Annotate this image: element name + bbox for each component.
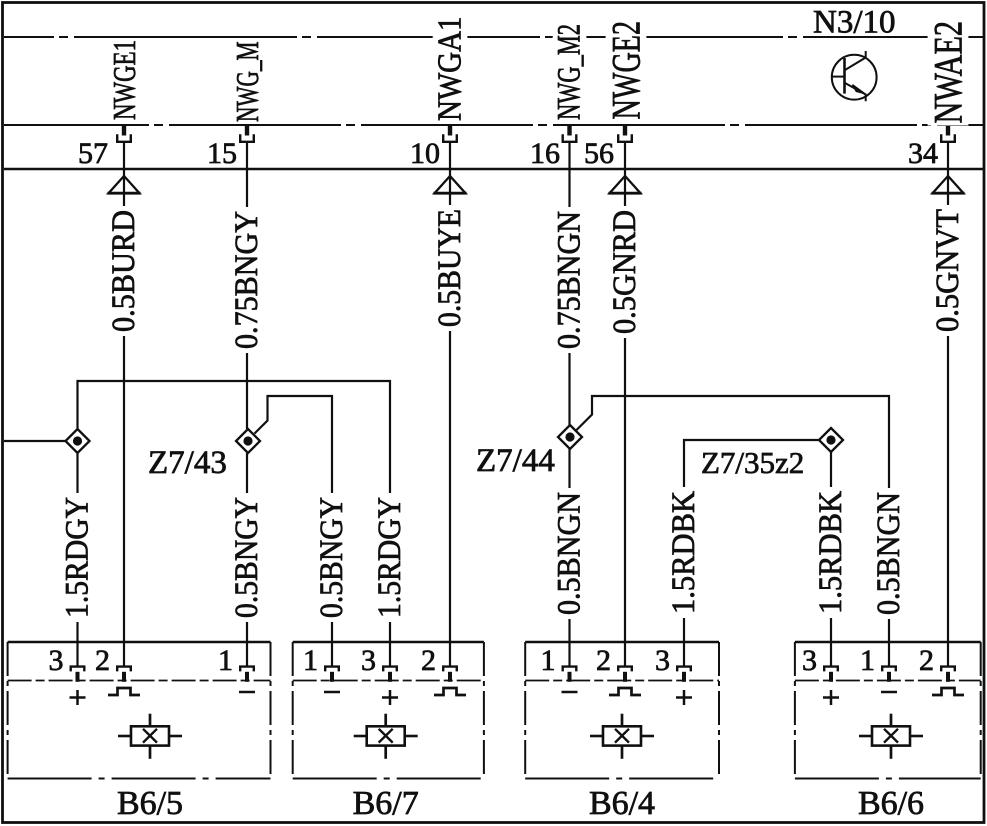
- B6/4 pin 2: [618, 667, 632, 682]
- svg-text:57: 57: [78, 137, 108, 170]
- svg-text:B6/6: B6/6: [858, 785, 924, 822]
- svg-text:15: 15: [207, 137, 237, 170]
- connector pin 56: [618, 125, 632, 142]
- svg-text:0.5BURD: 0.5BURD: [106, 210, 142, 332]
- svg-text:Z7/35z2: Z7/35z2: [701, 445, 804, 480]
- B6/7 pin 2: [443, 667, 457, 682]
- svg-text:0.75BNGY: 0.75BNGY: [229, 211, 265, 349]
- svg-text:NWG_M2: NWG_M2: [552, 24, 588, 120]
- connector pin 16: [563, 125, 577, 142]
- svg-text:2: 2: [596, 644, 611, 677]
- svg-text:16: 16: [530, 137, 560, 170]
- B6/6 sensor element symbol: [859, 714, 923, 759]
- B6/7 pin lead 2: [449, 642, 451, 667]
- B6/6 plus terminal mark: [823, 690, 839, 705]
- component box outline B6/4: [525, 642, 719, 779]
- connector pin 10: [443, 125, 457, 142]
- svg-text:B6/7: B6/7: [353, 785, 419, 822]
- B6/4 pin lead 2: [624, 642, 626, 667]
- svg-text:1: 1: [541, 644, 556, 677]
- wire from left sheet edge to splice node: [4, 440, 66, 442]
- B6/7 pin 1: [325, 667, 339, 682]
- wire label 0.75BNGY: [229, 207, 265, 353]
- B6/4 pin lead 3: [683, 642, 685, 667]
- wire label 0.5GNVT: [930, 205, 966, 336]
- svg-text:B6/4: B6/4: [589, 785, 655, 822]
- B6/6 signal/shield mark: [932, 688, 964, 695]
- svg-text:2: 2: [421, 644, 436, 677]
- direction arrow on 0.5GNRD: [609, 176, 642, 193]
- svg-text:3: 3: [655, 644, 670, 677]
- B6/5 pin lead 3: [77, 642, 79, 667]
- component box outline B6/6: [795, 642, 981, 779]
- wire 0.5BNGY splice Z7/43 to B6/5 pin1: [246, 453, 248, 666]
- B6/7 sensor element symbol: [354, 714, 418, 759]
- direction arrow on 0.5BUYE: [434, 176, 467, 193]
- B6/7 signal/shield mark: [434, 688, 466, 695]
- svg-text:Z7/43: Z7/43: [148, 445, 227, 481]
- component box outline B6/5: [8, 642, 271, 779]
- wire label 0.5BNGN (B6/4 pin1): [552, 488, 588, 619]
- svg-text:34: 34: [908, 137, 938, 170]
- svg-text:0.5BUYE: 0.5BUYE: [432, 209, 468, 327]
- svg-text:1.5RDBK: 1.5RDBK: [666, 491, 702, 614]
- B6/5 plus terminal mark: [70, 690, 86, 705]
- svg-text:0.75BNGN: 0.75BNGN: [552, 211, 588, 349]
- splice Z7/35z2: [819, 428, 843, 452]
- B6/6 pin 1: [882, 667, 896, 682]
- svg-text:0.5BNGN: 0.5BNGN: [871, 492, 907, 615]
- wire branch W1: node up and across to B6/7 pin3: [78, 381, 391, 666]
- wire 0.5BURD pin57 to B6/5 pin2: [123, 142, 125, 667]
- svg-text:NWAE2: NWAE2: [926, 21, 971, 124]
- svg-text:1: 1: [860, 644, 875, 677]
- svg-text:B6/5: B6/5: [117, 785, 183, 822]
- B6/7 minus terminal mark: [324, 691, 340, 694]
- B6/4 plus terminal mark: [676, 690, 692, 705]
- B6/7 pin lead 3: [389, 642, 391, 667]
- B6/5 pin 2: [117, 667, 131, 682]
- svg-text:NWGA1: NWGA1: [432, 17, 469, 122]
- B6/5 sensor element symbol: [118, 714, 182, 759]
- net label NWG_M2: [552, 22, 588, 122]
- svg-text:NWG_M: NWG_M: [229, 42, 265, 123]
- wire 0.5BUYE pin10 to B6/7 pin2: [449, 142, 451, 667]
- svg-text:3: 3: [361, 644, 376, 677]
- B6/4 pin 3: [677, 667, 691, 682]
- B6/6 pin lead 3: [830, 642, 832, 667]
- svg-text:2: 2: [95, 644, 110, 677]
- svg-text:3: 3: [49, 644, 64, 677]
- svg-text:1.5RDGY: 1.5RDGY: [60, 497, 96, 618]
- net label NWGA1: [432, 15, 469, 124]
- B6/4 signal/shield mark: [609, 688, 641, 695]
- svg-text:N3/10: N3/10: [813, 5, 896, 41]
- B6/7 pin 3: [383, 667, 397, 682]
- wire 0.5GNVT pin34 to B6/6 pin2: [947, 142, 949, 667]
- svg-text:1.5RDBK: 1.5RDBK: [813, 491, 849, 614]
- bus chain line upper: [4, 36, 983, 38]
- B6/7 pin lead 1: [331, 642, 333, 667]
- direction arrow on 0.5GNVT: [932, 176, 965, 193]
- B6/5 minus terminal mark: [239, 691, 255, 694]
- splice Z7/43: [236, 429, 260, 453]
- B6/4 pin lead 1: [569, 642, 571, 667]
- B6/5 pin lead 1: [246, 642, 248, 667]
- net label NWAE2: [926, 19, 971, 126]
- wire label 1.5RDBK (B6/6 pin3): [813, 487, 849, 618]
- svg-text:1: 1: [218, 644, 233, 677]
- component box outline B6/7: [293, 642, 484, 779]
- svg-text:56: 56: [584, 137, 614, 170]
- net label NWGE1: [106, 38, 142, 122]
- svg-text:1.5RDGY: 1.5RDGY: [372, 497, 408, 618]
- B6/7 plus terminal mark: [382, 690, 398, 705]
- wire branch W3: splice Z7/44 to B6/6 pin1: [577, 396, 890, 666]
- wire label 1.5RDGY (B6/7 pin3): [372, 493, 408, 622]
- wire label 0.5BUYE: [432, 205, 468, 331]
- B6/6 minus terminal mark: [881, 691, 897, 694]
- svg-text:3: 3: [802, 644, 817, 677]
- wire label 0.75BNGN: [552, 207, 588, 353]
- B6/5 pin 1: [240, 667, 254, 682]
- wire branch W4: B6/4 pin3 across to splice Z7/35z2: [684, 440, 819, 666]
- svg-text:NWGE1: NWGE1: [106, 40, 142, 120]
- direction arrow on 0.5BURD: [108, 176, 141, 193]
- wire 0.75BNGN pin16 to splice Z7/44: [568, 142, 570, 425]
- bus chain line lower (connector rail): [4, 124, 983, 126]
- wire label 0.5GNRD: [607, 206, 643, 338]
- wire label 0.5BNGY (B6/7 pin1): [314, 493, 350, 622]
- connector pin 57: [117, 125, 131, 142]
- svg-text:NWGE2: NWGE2: [604, 21, 649, 120]
- wire label 1.5RDGY (B6/5 pin3): [60, 493, 96, 622]
- svg-text:1: 1: [303, 644, 318, 677]
- connector pin 34: [941, 125, 955, 142]
- wire 0.5GNRD pin56 to B6/4 pin2: [624, 142, 626, 667]
- splice node left (to sheet edge): [66, 429, 90, 453]
- B6/6 pin 3: [824, 667, 838, 682]
- B6/4 sensor element symbol: [590, 714, 654, 759]
- net label NWG_M: [229, 40, 265, 125]
- transistor symbol (N3/10): [832, 51, 877, 101]
- wire 0.75BNGY pin15 to splice Z7/43: [246, 142, 248, 429]
- connector pin 15: [240, 125, 254, 142]
- B6/6 pin 2: [941, 667, 955, 682]
- wire 1.5RDGY node down to B6/5 pin3: [76, 453, 78, 666]
- wire label 0.5BNGY (B6/5 pin1): [229, 493, 265, 622]
- svg-text:2: 2: [919, 644, 934, 677]
- B6/6 pin lead 1: [888, 642, 890, 667]
- net label NWGE2: [604, 19, 649, 122]
- wire branch W2: splice Z7/43 to B6/7 pin1: [255, 396, 333, 666]
- B6/4 pin 1: [563, 667, 577, 682]
- svg-text:10: 10: [410, 137, 440, 170]
- svg-text:Z7/44: Z7/44: [476, 443, 555, 479]
- B6/5 pin lead 2: [123, 642, 125, 667]
- svg-text:0.5BNGY: 0.5BNGY: [229, 497, 265, 618]
- wire 0.5BNGN splice Z7/44 to B6/4 pin1: [568, 449, 570, 666]
- wire 1.5RDBK splice Z7/35z2 down to B6/6 pin3: [830, 452, 832, 666]
- B6/5 pin 3: [71, 667, 85, 682]
- wire label 0.5BNGN (B6/6 pin1): [871, 488, 907, 619]
- svg-text:0.5BNGN: 0.5BNGN: [552, 492, 588, 615]
- B6/6 pin lead 2: [947, 642, 949, 667]
- B6/4 minus terminal mark: [562, 691, 578, 694]
- B6/5 signal/shield mark: [108, 688, 140, 695]
- splice Z7/44: [558, 425, 582, 449]
- wire label 1.5RDBK (B6/4 pin3): [666, 487, 702, 618]
- svg-text:0.5BNGY: 0.5BNGY: [314, 497, 350, 618]
- solid separator rail: [4, 168, 983, 171]
- wire label 0.5BURD: [106, 206, 142, 336]
- svg-text:0.5GNRD: 0.5GNRD: [607, 210, 643, 334]
- svg-text:0.5GNVT: 0.5GNVT: [930, 209, 966, 332]
